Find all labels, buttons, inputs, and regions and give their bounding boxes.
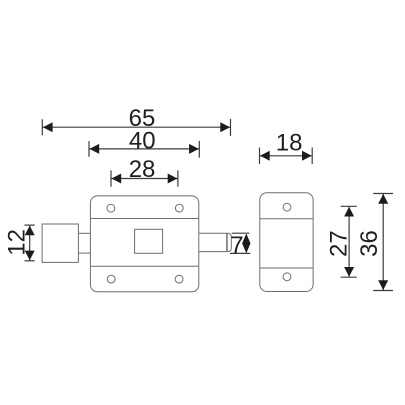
svg-text:12: 12 [3, 229, 30, 256]
svg-text:40: 40 [129, 127, 156, 154]
svg-text:28: 28 [129, 156, 156, 183]
svg-text:27: 27 [326, 230, 353, 257]
svg-text:36: 36 [356, 230, 383, 257]
svg-text:18: 18 [276, 130, 303, 157]
svg-text:7: 7 [230, 232, 243, 259]
